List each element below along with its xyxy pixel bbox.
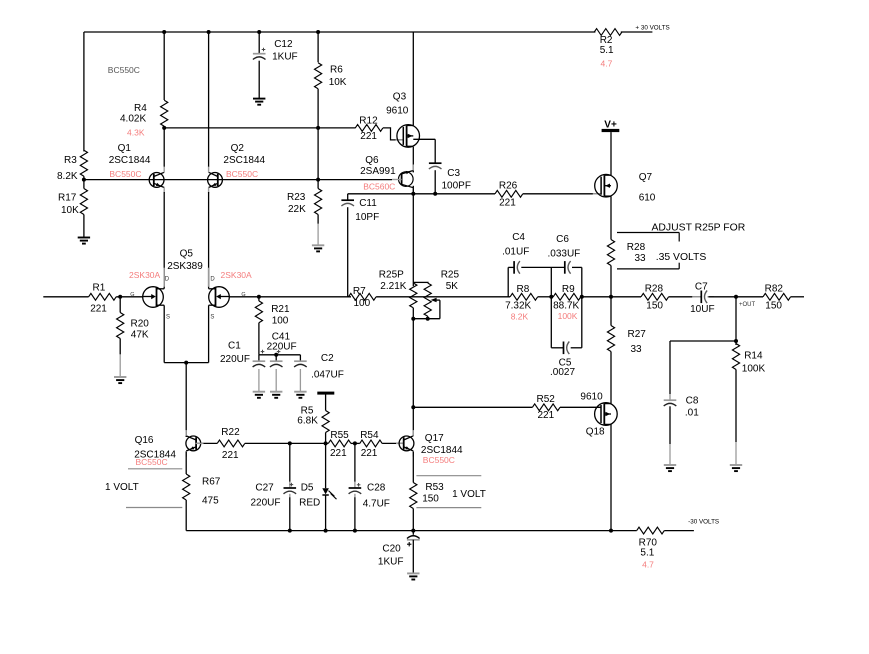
svg-text:R25: R25 [441,269,460,280]
ground [407,572,419,574]
capacitor C4 branch [507,267,509,296]
svg-text:BC550C: BC550C [226,169,258,179]
resistor R53 [410,483,417,509]
svg-text:150: 150 [422,494,439,505]
wire Q1 emitter to Q5 drain [163,192,165,289]
ground [730,464,742,466]
potentiometer R25P [413,281,428,283]
svg-text:R55: R55 [330,430,349,441]
svg-text:BC560C: BC560C [363,181,395,191]
svg-text:100: 100 [354,298,371,309]
svg-text:Q17: Q17 [425,433,444,444]
resistor R9 [553,293,581,300]
svg-text:R26: R26 [499,180,518,191]
jfet Q5a [163,268,165,287]
svg-text:2SK389: 2SK389 [167,261,203,272]
wire R3-R17 node [83,176,85,188]
svg-text:221: 221 [90,303,107,314]
svg-text:.01: .01 [685,407,699,418]
capacitor C8 branch [669,341,671,394]
svg-text:Q6: Q6 [365,155,379,166]
svg-text:Q1: Q1 [118,143,132,154]
jfet Q5b [208,268,210,287]
wire R1 to gate [116,296,143,298]
svg-text:2SK30A: 2SK30A [221,270,253,280]
svg-text:.35 VOLTS: .35 VOLTS [656,252,707,263]
capacitor C20 [412,531,414,535]
svg-text:47K: 47K [131,330,149,341]
resistor R7 [349,293,377,300]
resistor R6 [315,63,322,89]
svg-text:220UF: 220UF [220,354,250,365]
wire x=413 from rail to Q3 [412,32,414,125]
potentiometer R25 5K [424,283,431,316]
svg-text:C11: C11 [359,198,377,209]
svg-text:D5: D5 [301,483,314,494]
svg-text:R22: R22 [221,427,240,438]
resistor R52 [532,404,560,411]
mosfet Q3 9610 [396,139,404,141]
resistor R2 [594,29,622,36]
resistor R3 [80,150,87,176]
wire C6 box verticals [550,267,552,347]
resistor R28 33 [607,240,614,266]
svg-text:10K: 10K [329,77,347,88]
ground [114,376,126,378]
svg-text:10UF: 10UF [690,304,714,315]
capacitor C28 branch [354,443,356,481]
wire R12 to Q3 gate jog [383,128,403,140]
svg-text:.01UF: .01UF [502,247,529,258]
label 1 VOLT right [416,475,481,477]
svg-text:9610: 9610 [580,391,603,402]
wire R14 to ground [735,370,737,443]
wire output R28 150 [641,293,669,300]
svg-text:4.3K: 4.3K [127,128,145,138]
resistor R26 [495,190,523,197]
wire Q3 to Q6 [412,147,414,173]
svg-text:221: 221 [361,448,378,459]
capacitor C7 [692,296,700,298]
svg-text:100K: 100K [558,311,578,321]
svg-text:7.32K: 7.32K [505,301,531,312]
wire x=208 branch top [208,32,210,167]
wire Q16 base to R22 [196,442,218,444]
resistor R5 [325,394,327,411]
svg-text:10K: 10K [61,205,79,216]
resistor R55 [328,440,351,447]
svg-text:C1: C1 [228,340,241,351]
resistor R8 [510,293,538,300]
svg-text:1KUF: 1KUF [272,51,298,62]
svg-text:.0027: .0027 [550,367,575,378]
svg-text:2SK30A: 2SK30A [129,270,161,280]
label 1 VOLT left [128,468,182,470]
svg-text:220UF: 220UF [267,342,297,353]
wire R22 to R55 [245,442,328,444]
wire R9 to output node [581,296,641,298]
svg-text:BC550C: BC550C [108,65,140,75]
resistor R21 [258,297,260,301]
transistor Q1 2SC1844 [149,173,164,188]
wire Q6 collector down VAS node [412,186,414,286]
svg-text:610: 610 [639,193,656,204]
svg-text:R1: R1 [93,282,106,293]
svg-text:1KUF: 1KUF [378,556,404,567]
svg-text:+OUT: +OUT [739,302,756,308]
svg-text:+ 30 VOLTS: + 30 VOLTS [635,25,669,32]
wire R52 to Q18 gate [560,406,601,408]
wire VAS gate line y=128 [164,127,355,129]
ground [664,464,676,466]
wire cap bus [259,354,301,356]
svg-text:4.7: 4.7 [642,560,654,570]
svg-text:R9: R9 [562,284,575,295]
resistor R82 [763,293,791,300]
resistor R20 [119,297,121,313]
svg-text:2SC1844: 2SC1844 [421,445,463,456]
wire R7 to feedback node [376,296,510,298]
svg-text:100K: 100K [742,364,766,375]
transistor Q17 2SC1844 [396,442,404,444]
transistor Q16 2SC1844 [186,436,201,451]
capacitor C1 [258,355,260,361]
svg-text:R23: R23 [287,192,306,203]
resistor R23 [315,189,322,215]
wire Q2 emitter to Q5 drain [208,192,210,289]
capacitor C2 [299,355,301,361]
svg-text:221: 221 [538,410,555,421]
wire input line [43,296,88,298]
diode D5 LED [325,443,327,488]
svg-text:Q3: Q3 [393,92,407,103]
svg-text:C27: C27 [255,483,274,494]
mosfet Q18 9610 [589,406,601,408]
resistor R17 [80,189,87,215]
svg-text:R4: R4 [134,103,147,114]
svg-text:5.1: 5.1 [640,548,654,559]
node C2 bar terminal [317,392,334,395]
pot wiper arrow [427,316,429,319]
resistor R12 [355,125,383,132]
capacitor C27 branch [289,443,291,481]
transistor Q6 2SA991 [399,172,414,187]
wire R53 to bottom rail [412,509,414,531]
wire VAS node down to Q17 [412,319,414,436]
svg-text:150: 150 [765,301,782,312]
wire right gate to R21 node [229,296,351,298]
svg-text:8.2K: 8.2K [511,311,529,321]
wire R54 to Q17 base [382,442,404,444]
svg-text:R8: R8 [517,284,530,295]
svg-text:C4: C4 [512,232,525,243]
svg-text:C28: C28 [367,482,386,493]
wire R6 branch [317,32,319,62]
svg-text:Q7: Q7 [639,172,653,183]
svg-text:4.02K: 4.02K [120,114,146,125]
svg-text:Q16: Q16 [135,435,154,446]
svg-text:C2: C2 [321,353,334,364]
svg-text:221: 221 [360,131,377,142]
svg-text:1 VOLT: 1 VOLT [452,489,486,500]
ground [78,237,90,239]
wire V+ to Q7 [610,132,612,175]
wire R20 to ground [119,339,121,355]
wire Q17 emitter to R53 [412,452,414,483]
wire base bias line Q1 Q2 Q6 [84,179,392,181]
capacitor C3 branch [413,138,435,140]
svg-text:R27: R27 [628,329,647,340]
svg-text:C7: C7 [695,282,708,293]
svg-text:R52: R52 [537,394,556,405]
svg-text:ADJUST R25P FOR: ADJUST R25P FOR [652,223,746,234]
svg-text:-30 VOLTS: -30 VOLTS [688,519,719,526]
svg-text:R20: R20 [131,319,150,330]
svg-text:2.21K: 2.21K [380,281,406,292]
wire x=164 branch top [163,32,165,100]
svg-text:.047UF: .047UF [311,370,344,381]
svg-text:221: 221 [330,448,347,459]
svg-text:R28: R28 [627,242,646,253]
svg-text:150: 150 [646,301,663,312]
svg-text:BC550C: BC550C [109,169,141,179]
svg-text:221: 221 [499,198,516,209]
svg-text:R25P: R25P [379,270,404,281]
wire Q16 emitter to R67 [185,452,187,475]
svg-text:4.7UF: 4.7UF [363,499,390,510]
svg-text:R7: R7 [353,286,366,297]
svg-text:Q2: Q2 [231,143,245,154]
svg-text:2SC1844: 2SC1844 [223,155,265,166]
svg-text:220UF: 220UF [251,497,281,508]
ground [312,244,324,246]
svg-text:.033UF: .033UF [548,248,581,259]
svg-text:C12: C12 [274,39,293,50]
resistor R1 [89,293,117,300]
svg-text:2SA991: 2SA991 [360,166,396,177]
resistor R70 [637,527,665,534]
svg-text:33: 33 [635,253,647,264]
wire R8-R9 [538,296,554,298]
svg-text:C20: C20 [382,543,401,554]
svg-text:R14: R14 [744,351,763,362]
resistor R67 [183,474,190,500]
wire R21 to cap bus [258,323,260,355]
svg-text:R17: R17 [58,193,77,204]
wire y=194 line [348,193,495,195]
svg-text:R82: R82 [765,284,784,295]
wire top +30V rail [84,31,596,33]
resistor R14 [735,341,737,345]
svg-text:5K: 5K [446,281,459,292]
wire R67 to bottom rail [185,500,187,531]
svg-text:100: 100 [272,316,289,327]
svg-text:C8: C8 [686,395,699,406]
wire R55-R54 node [351,442,360,444]
svg-text:RED: RED [299,497,320,508]
svg-text:S: S [210,315,214,321]
svg-text:BC550C: BC550C [423,455,455,465]
capacitor C5 [551,347,563,349]
svg-text:D: D [165,277,170,283]
transistor Q2 2SC1844 [208,173,223,188]
svg-text:33: 33 [631,344,643,355]
svg-text:1 VOLT: 1 VOLT [105,482,139,493]
wire bottom rail [186,530,637,532]
svg-text:10PF: 10PF [355,212,379,223]
svg-text:C6: C6 [556,234,569,245]
ground [253,98,265,100]
wire R23 to ground [317,215,319,224]
wire R52 branch [413,406,532,408]
svg-text:D: D [210,277,215,283]
svg-text:S: S [166,315,170,321]
jfet pair Q5 2SK389 box [163,305,165,362]
svg-text:V+: V+ [604,119,617,130]
wire Q7 source to R28 [610,196,612,239]
wire R17 to ground [83,215,85,238]
wire Q18 to bottom rail [610,424,612,530]
wire output node down [735,297,737,341]
svg-text:R6: R6 [330,65,343,76]
svg-text:Q18: Q18 [586,426,605,437]
wire R4 to Q1 collector [163,126,165,167]
resistor R54 [360,440,382,447]
wire R28 to output node [610,266,612,297]
svg-text:9610: 9610 [386,106,409,117]
capacitor C41 [275,355,277,361]
svg-text:221: 221 [222,450,239,461]
resistor R22 [217,440,245,447]
svg-text:8.2K: 8.2K [57,171,78,182]
resistor R4 [161,100,168,126]
svg-text:R21: R21 [271,304,290,315]
svg-text:5.1: 5.1 [600,45,614,56]
wire R27 to Q18 [610,352,612,404]
svg-text:R3: R3 [64,155,77,166]
wire left bias branch x=84 [83,32,85,151]
svg-text:100PF: 100PF [442,181,471,192]
svg-text:22K: 22K [288,204,306,215]
svg-text:R53: R53 [425,482,444,493]
wire Q5 sources to Q16 [185,363,187,437]
svg-text:475: 475 [202,496,219,507]
wire R6 to bias nodes [317,89,319,189]
resistor R27 [610,297,612,326]
mosfet Q7 610 [593,193,601,195]
svg-text:R12: R12 [359,115,378,126]
svg-text:R28: R28 [645,284,664,295]
svg-text:R67: R67 [202,477,221,488]
capacitor C12 [258,32,260,54]
svg-text:6.8K: 6.8K [297,415,318,426]
capacitor C6 [564,261,566,274]
svg-text:C3: C3 [447,168,460,179]
label adjust bracket [617,232,679,234]
svg-text:BC550C: BC550C [136,457,168,467]
svg-text:2SC1844: 2SC1844 [109,155,151,166]
svg-text:Q5: Q5 [180,248,194,259]
capacitor C11 branch [347,194,349,200]
svg-text:R54: R54 [360,430,379,441]
node +OUT [734,295,738,299]
svg-text:4.7: 4.7 [601,59,613,69]
